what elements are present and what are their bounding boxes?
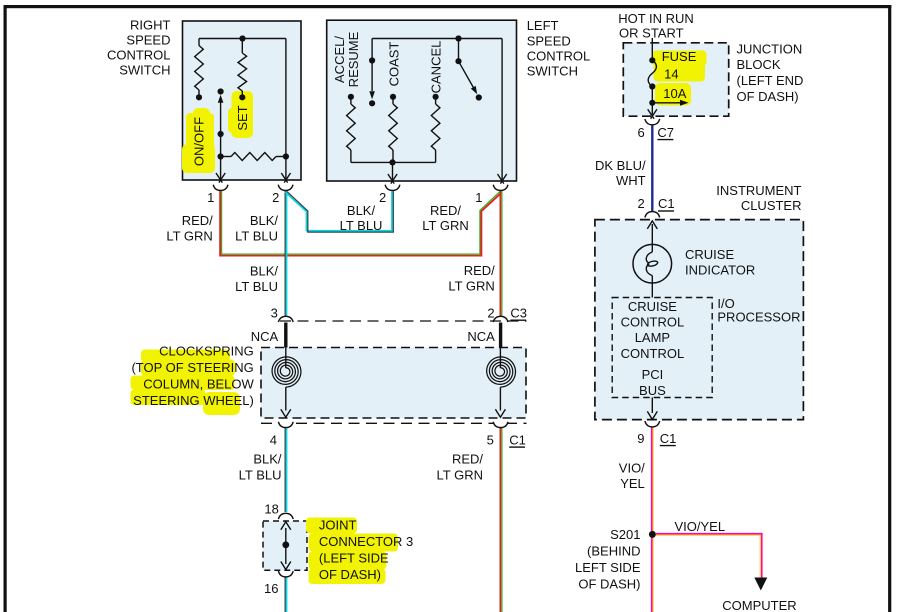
SW2 bottom bus wire [351,161,436,163]
branch arrow to other circuits [652,102,681,104]
svg-text:16: 16 [264,581,278,596]
node: fuse bottom [649,83,655,89]
connector cup pin 4 [278,422,293,428]
svg-text:WHT: WHT [616,173,646,188]
node: accel/resume lower contact [369,100,375,106]
node: takeoff [649,100,655,106]
svg-text:VIO/: VIO/ [619,461,645,476]
border frame (decorative) [4,5,892,8]
node on wiper wire [218,131,224,137]
svg-text:CRUISE: CRUISE [685,247,734,262]
svg-text:14: 14 [664,66,678,81]
connector cup pin 9 C1 [645,421,660,427]
arrow into cluster (up) [651,224,653,244]
svg-text:RED/: RED/ [430,203,461,218]
connector pin 2 of SW1 [278,185,293,191]
svg-text:COLUMN, BELOW: COLUMN, BELOW [143,376,254,391]
svg-text:2: 2 [379,190,386,205]
instrument cluster box (dashed) [595,220,804,420]
fuse F14 10A (S-curve) [648,60,656,86]
wire down to switch pivot [458,39,460,62]
resistor ACCEL/RESUME [350,97,352,104]
joint connector 3 box (dashed) [263,521,307,570]
svg-text:RESUME: RESUME [346,31,361,87]
connector cap at cluster pin 2 [645,212,660,218]
wire wiper down [371,61,373,92]
highlight over FUSE 14 10A [653,51,707,106]
connector cup pin 6 C7 [645,119,660,125]
svg-text:10A: 10A [663,86,686,101]
svg-text:SPEED: SPEED [126,33,170,48]
wire from hot feed into junction block [651,38,653,60]
arrow out of junction block [648,109,657,119]
svg-text:6: 6 [637,125,644,140]
svg-text:C1: C1 [660,431,677,446]
connector line C1 (dashed) [261,422,527,424]
NCA stub right [499,323,502,348]
svg-text:CONTROL: CONTROL [107,48,171,63]
resistor COAST [392,97,394,104]
switch blade arrowhead [471,86,477,94]
svg-text:BUS: BUS [639,383,666,398]
resistor SW1 horizontal [221,156,231,158]
wire out of inner box, arrow down [651,398,653,414]
arrow down to contact [369,91,375,99]
svg-text:SWITCH: SWITCH [119,63,170,78]
node: horizontal resistor left [218,153,224,159]
svg-text:VIO/YEL: VIO/YEL [675,519,726,534]
svg-text:COAST: COAST [387,42,402,87]
svg-text:SWITCH: SWITCH [527,64,578,79]
svg-text:C1: C1 [658,196,675,211]
resistor SW1 middle (SET) [241,39,243,54]
svg-text:4: 4 [270,432,277,447]
connector cup pin 16 [278,571,293,577]
wire: SW1 wiper to pin 1 [220,101,222,179]
node: switch pivot [455,58,461,64]
svg-text:CLUSTER: CLUSTER [741,198,802,213]
svg-text:LAMP: LAMP [635,330,670,345]
SW1 wiper arrow (points up) [218,95,224,103]
clockspring box (dashed) [261,348,526,419]
I/O processor inner box (dashed) [612,298,712,398]
svg-text:LT BLU: LT BLU [239,468,282,483]
svg-text:LEFT: LEFT [527,18,559,33]
svg-text:18: 18 [264,502,278,517]
svg-text:1: 1 [475,190,482,205]
connector cup pin 5 C1 [493,422,508,428]
arrow out SW1 pin 2 [281,173,290,183]
resistor SW1 left (on/off ladder) [198,39,200,46]
node: SET contact [239,94,245,100]
resistor CANCEL [435,97,437,104]
svg-text:C1: C1 [509,432,526,447]
svg-text:OF DASH): OF DASH) [578,577,640,592]
svg-text:BLOCK: BLOCK [737,57,781,72]
node: switch throw contact [476,94,482,100]
wire BLK/LT BLU: clockspring pin4 down to joint connector pin 18 [285,428,286,612]
svg-text:LT BLU: LT BLU [340,218,383,233]
wire: SW2 accel wiper drop [371,39,373,61]
svg-text:RED/: RED/ [452,451,483,466]
svg-text:(LEFT END: (LEFT END [737,73,804,88]
svg-text:PCI: PCI [642,367,664,382]
svg-text:HOT IN RUN: HOT IN RUN [618,11,694,26]
svg-text:STEERING WHEEL): STEERING WHEEL) [133,393,254,408]
node: ACCEL resistor top [348,94,354,100]
connector cap pin 3 [278,316,293,322]
wire BLK/LT BLU: SW1 pin2 jog to SW2 pin2 [285,191,393,232]
svg-text:JUNCTION: JUNCTION [737,41,803,56]
node: horizontal resistor right [283,153,289,159]
node: joint connector splice [282,541,289,548]
switch SW2 body: LEFT SPEED CONTROL SWITCH box [327,20,517,181]
svg-text:RIGHT: RIGHT [130,18,171,33]
svg-text:1: 1 [207,190,214,205]
svg-text:ON/OFF: ON/OFF [192,117,207,166]
svg-text:CONTROL: CONTROL [527,48,591,63]
highlight over CLOCKSPRING note [131,350,241,416]
svg-text:DK BLU/: DK BLU/ [595,158,646,173]
svg-text:OF DASH): OF DASH) [737,89,799,104]
svg-text:RED/: RED/ [464,263,495,278]
svg-text:CONTROL: CONTROL [621,315,685,330]
svg-text:YEL: YEL [620,476,645,491]
wire BLK/LT BLU: SW1 pin2 down to clockspring pin3 [285,191,286,317]
svg-text:S201: S201 [610,527,640,542]
highlight over ON/OFF label [182,108,215,173]
node S201 splice [649,531,656,538]
svg-text:LT BLU: LT BLU [235,229,278,244]
svg-text:9: 9 [637,431,644,446]
clockspring coil left [285,348,287,369]
arrow out SW1 pin 1 [216,173,225,183]
svg-text:5: 5 [487,432,494,447]
svg-text:CONTROL: CONTROL [621,346,685,361]
connector pin 2 of SW2 [385,185,400,191]
svg-text:BLK/: BLK/ [347,203,376,218]
svg-text:BLK/: BLK/ [250,264,279,279]
connector cap pin 2 C3 [493,316,508,322]
node: CANCEL resistor top [433,94,439,100]
wire VIO/YEL: cluster pin9 C1 down to S201 and off page [652,428,654,612]
node: fuse top [649,57,655,63]
svg-text:PROCESSOR: PROCESSOR [717,310,800,325]
joint connector internal wire with arrows [285,528,287,564]
cancel switch: node top [455,35,461,41]
svg-text:(BEHIND: (BEHIND [587,544,640,559]
arrow to COMPUTER (solid) [754,578,767,591]
svg-text:INSTRUMENT: INSTRUMENT [716,183,801,198]
svg-text:SET: SET [235,105,250,130]
svg-text:RED/: RED/ [182,213,213,228]
svg-text:JOINT: JOINT [319,518,357,533]
connector line C3 (dashed) [280,320,527,322]
wire: SW2 right bus to pin 1 [501,39,503,181]
arrow out SW2 pin 1 [498,174,507,184]
svg-text:ACCEL/: ACCEL/ [332,36,347,83]
svg-text:BLK/: BLK/ [250,213,279,228]
svg-text:3: 3 [271,305,278,320]
wire RED/LT GRN: clockspring pin5 C1 down off page [500,428,502,612]
wire: SW1 right bus to pin 2 [285,39,287,180]
highlight over SET label [228,91,253,138]
svg-text:(TOP OF STEERING: (TOP OF STEERING [131,360,253,375]
svg-text:OR START: OR START [619,26,684,41]
node: accel/resume wiper top [369,57,375,63]
wire RED/LT GRN: SW1 pin1 down, right, up-diag to SW2 pin1 [220,191,501,256]
svg-text:LEFT SIDE: LEFT SIDE [575,560,641,575]
wire fuse to takeoff node [651,87,653,103]
switch blade (diagonal) [459,61,475,89]
SW1 wiper contact node [218,88,224,94]
svg-text:(LEFT SIDE: (LEFT SIDE [319,550,389,565]
switch SW1 body: RIGHT SPEED CONTROL SWITCH box [183,21,302,180]
svg-text:LT GRN: LT GRN [166,229,212,244]
svg-text:C7: C7 [657,125,674,140]
highlight over JOINT CONNECTOR 3 note [306,518,398,585]
node: SW1 top bus junction [239,35,245,41]
wire RED/LT GRN: SW2 pin1 down to clockspring pin2 C3 [500,191,502,317]
svg-text:FUSE: FUSE [662,49,697,64]
svg-text:CLOCKSPRING: CLOCKSPRING [159,344,254,359]
svg-text:LT GRN: LT GRN [448,279,494,294]
svg-text:2: 2 [637,196,644,211]
arrow out SW2 pin 2 [388,174,397,184]
svg-text:LT GRN: LT GRN [422,218,468,233]
svg-text:CANCEL: CANCEL [428,41,443,94]
lamp: CRUISE INDICATOR bulb [633,244,672,283]
svg-text:LT BLU: LT BLU [235,279,278,294]
node: COAST resistor top [390,94,396,100]
connector cap pin 18 [278,513,293,519]
svg-text:BLK/: BLK/ [253,451,282,466]
NCA stub left [284,323,287,348]
svg-text:SPEED: SPEED [527,33,571,48]
svg-text:CRUISE: CRUISE [628,299,677,314]
node: SW1 left resistor contact [196,94,202,100]
svg-text:2: 2 [487,305,494,320]
svg-text:LT GRN: LT GRN [437,468,483,483]
svg-text:CONNECTOR 3: CONNECTOR 3 [319,534,413,549]
svg-text:2: 2 [272,190,279,205]
connector pin 1 of SW1 [213,185,228,191]
svg-text:OF DASH): OF DASH) [319,567,381,582]
svg-text:NCA: NCA [251,329,279,344]
svg-text:C3: C3 [510,305,527,320]
svg-text:INDICATOR: INDICATOR [685,263,755,278]
SW2 top bus wire [372,38,502,40]
wire: SW2 output to pin 2 [392,162,394,180]
clockspring coil right [499,348,501,369]
svg-text:COMPUTER: COMPUTER [722,598,796,612]
wire to junction block output [651,103,653,115]
svg-text:NCA: NCA [467,329,495,344]
wire VIO/YEL: S201 branch to computer [656,534,762,578]
wire DK BLU/WHT: fuse to cluster pin2 C1 [651,126,653,212]
node: SW2 output junction [389,159,395,165]
junction block box (dashed) [623,43,728,116]
SW1 top bus wire [199,38,286,40]
connector pin 1 of SW2 [493,185,508,191]
